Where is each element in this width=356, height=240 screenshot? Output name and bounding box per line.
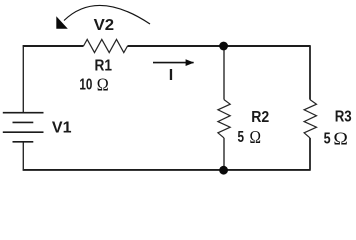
resistor R1 zigzag bbox=[84, 39, 128, 52]
svg-text:R3: R3 bbox=[335, 109, 352, 126]
svg-text:Ω: Ω bbox=[333, 129, 348, 149]
svg-text:R2: R2 bbox=[251, 109, 269, 126]
wire: R3 branch bottom vertical bbox=[309, 138, 311, 170]
svg-text:V1: V1 bbox=[52, 120, 72, 137]
V2 arrowhead bbox=[56, 16, 68, 29]
svg-text:R1: R1 bbox=[95, 58, 113, 75]
svg-text:10: 10 bbox=[79, 77, 92, 94]
svg-text:Ω: Ω bbox=[97, 75, 109, 95]
svg-text:I: I bbox=[169, 67, 173, 84]
svg-text:5: 5 bbox=[324, 130, 331, 147]
wire: bottom horizontal bbox=[23, 169, 311, 171]
battery V1 plates bbox=[3, 113, 44, 142]
wire: left vertical top segment (battery + to top-left corner) bbox=[22, 47, 24, 113]
wire: R2 branch bottom segment bbox=[223, 138, 225, 170]
wire: left vertical bottom segment (battery - to bottom-left corner) bbox=[22, 142, 24, 170]
wire: top-left horizontal segment bbox=[23, 45, 84, 47]
wire: R2 branch top segment bbox=[223, 46, 225, 99]
node: top junction dot bbox=[219, 42, 228, 51]
svg-text:5: 5 bbox=[238, 129, 245, 146]
wire: top wire from R1 to top-right corner bbox=[128, 45, 311, 47]
svg-text:Ω: Ω bbox=[250, 127, 262, 147]
V2 curved arrow bbox=[64, 5, 150, 24]
svg-text:V2: V2 bbox=[94, 17, 115, 34]
current arrow I bbox=[153, 62, 194, 64]
resistor R2 zigzag bbox=[218, 100, 230, 138]
node: bottom junction dot bbox=[219, 166, 228, 175]
wire: R3 branch top vertical bbox=[309, 46, 311, 99]
resistor R3 zigzag bbox=[304, 100, 316, 138]
